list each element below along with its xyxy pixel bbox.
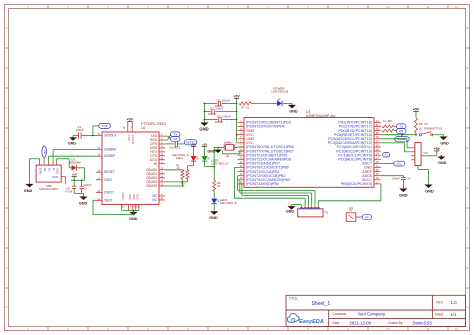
svg-text:TX: TX xyxy=(173,132,177,136)
svg-text:RESET: RESET xyxy=(104,170,115,174)
svg-text:A1: A1 xyxy=(365,215,369,219)
svg-text:H: H xyxy=(466,305,468,309)
svg-text:7: 7 xyxy=(130,206,132,209)
svg-text:TEST: TEST xyxy=(104,198,112,202)
svg-text:E: E xyxy=(466,186,468,190)
svg-text:A: A xyxy=(5,26,7,30)
svg-text:VCC: VCC xyxy=(56,168,60,175)
svg-text:A1: A1 xyxy=(385,153,389,157)
svg-text:Sheet_1: Sheet_1 xyxy=(312,301,331,307)
svg-text:LED1: LED1 xyxy=(176,156,184,160)
svg-text:RESET: RESET xyxy=(397,137,407,141)
svg-text:NC: NC xyxy=(152,198,157,202)
svg-text:EasyEDA: EasyEDA xyxy=(299,319,324,325)
svg-text:CBUS4: CBUS4 xyxy=(146,184,157,188)
svg-text:VCC: VCC xyxy=(127,135,131,141)
svg-text:100nF: 100nF xyxy=(84,183,92,187)
svg-text:100nF: 100nF xyxy=(222,99,230,103)
svg-text:C: C xyxy=(466,106,469,110)
svg-text:GND: GND xyxy=(286,209,294,213)
svg-text:1V1: 1V1 xyxy=(397,162,402,166)
svg-text:GND: GND xyxy=(136,194,139,200)
svg-text:GND: GND xyxy=(133,194,136,200)
svg-text:Company:: Company: xyxy=(333,312,348,316)
svg-text:D+: D+ xyxy=(48,168,52,172)
svg-text:F: F xyxy=(467,226,469,230)
svg-text:U2: U2 xyxy=(141,126,146,130)
svg-text:U3: U3 xyxy=(424,122,428,126)
svg-text:R7: R7 xyxy=(241,106,245,110)
svg-text:GND: GND xyxy=(79,201,88,205)
svg-text:GND: GND xyxy=(68,142,76,146)
svg-text:E: E xyxy=(5,186,7,190)
svg-text:GND: GND xyxy=(52,175,58,179)
svg-text:GND: GND xyxy=(129,194,132,200)
svg-text:D: D xyxy=(466,146,469,150)
svg-text:I2C: I2C xyxy=(424,151,429,155)
svg-text:OSCO: OSCO xyxy=(104,190,114,194)
svg-text:16MHz: 16MHz xyxy=(224,140,234,144)
svg-text:100nF: 100nF xyxy=(215,107,223,111)
svg-text:2PINBUTTON: 2PINBUTTON xyxy=(424,127,442,131)
svg-text:R9: R9 xyxy=(388,119,392,123)
svg-text:100nF: 100nF xyxy=(392,177,400,181)
svg-text:100nF: 100nF xyxy=(222,115,230,119)
svg-text:C8: C8 xyxy=(407,177,411,181)
svg-text:C4: C4 xyxy=(84,186,88,190)
svg-text:100nF: 100nF xyxy=(76,128,84,132)
svg-text:1k: 1k xyxy=(383,119,387,123)
svg-text:ATMEGA328P-AU: ATMEGA328P-AU xyxy=(306,114,336,118)
svg-text:1/1: 1/1 xyxy=(451,312,457,317)
svg-text:Sheet:: Sheet: xyxy=(435,313,444,317)
svg-text:TC3: TC3 xyxy=(102,124,108,128)
svg-text:NC: NC xyxy=(43,150,47,154)
svg-text:+5V: +5V xyxy=(202,142,207,146)
svg-text:GND: GND xyxy=(289,109,298,113)
svg-text:RX: RX xyxy=(173,137,177,141)
svg-text:VCCIO: VCCIO xyxy=(131,135,135,145)
svg-text:1.0: 1.0 xyxy=(451,300,458,305)
svg-text:C9: C9 xyxy=(217,115,221,119)
svg-text:C: C xyxy=(5,106,8,110)
svg-text:RX: RX xyxy=(399,129,403,133)
svg-text:1k: 1k xyxy=(246,106,250,110)
svg-text:20: 20 xyxy=(122,126,125,129)
svg-text:1k: 1k xyxy=(419,127,423,131)
svg-text:GND: GND xyxy=(438,161,446,165)
svg-text:F: F xyxy=(6,226,8,230)
svg-text:AGND: AGND xyxy=(122,192,125,199)
svg-text:R?: R? xyxy=(349,209,353,213)
svg-text:DanteSSS: DanteSSS xyxy=(413,320,433,325)
svg-text:Date:: Date: xyxy=(333,321,341,325)
svg-text:+5V: +5V xyxy=(234,95,241,99)
svg-text:D-: D- xyxy=(52,168,56,171)
svg-text:C2: C2 xyxy=(177,146,181,150)
svg-text:USBDP: USBDP xyxy=(104,154,116,158)
svg-text:REV:: REV: xyxy=(436,300,443,304)
svg-text:105/164-0001: 105/164-0001 xyxy=(39,187,58,191)
svg-text:GND: GND xyxy=(39,168,43,176)
svg-text:B: B xyxy=(5,66,7,70)
svg-text:LED-0603_B: LED-0603_B xyxy=(220,201,237,205)
svg-text:12: 12 xyxy=(455,327,459,331)
svg-text:100nF: 100nF xyxy=(215,120,223,124)
svg-text:G: G xyxy=(466,266,469,270)
svg-text:G: G xyxy=(5,266,8,270)
svg-text:Your Company: Your Company xyxy=(358,311,386,316)
svg-text:3V3OUT: 3V3OUT xyxy=(104,134,117,138)
svg-text:B: B xyxy=(466,66,468,70)
svg-text:H: H xyxy=(5,305,7,309)
svg-text:+5V: +5V xyxy=(72,173,77,177)
svg-text:TX: TX xyxy=(399,124,403,128)
svg-text:25: 25 xyxy=(122,206,125,209)
svg-text:R5: R5 xyxy=(419,122,423,126)
svg-text:LED-0603_B: LED-0603_B xyxy=(272,90,289,94)
svg-text:11: 11 xyxy=(426,5,429,9)
svg-text:4: 4 xyxy=(130,126,133,128)
svg-text:GND: GND xyxy=(440,141,449,145)
svg-text:D: D xyxy=(5,146,8,150)
svg-text:X1: X1 xyxy=(226,154,230,158)
svg-text:4.7uF: 4.7uF xyxy=(65,190,73,194)
svg-text:OSCI: OSCI xyxy=(104,178,112,182)
svg-text:A: A xyxy=(466,26,468,30)
svg-text:GND: GND xyxy=(209,216,218,220)
svg-text:+5V: +5V xyxy=(413,108,420,112)
svg-text:10: 10 xyxy=(386,5,390,9)
svg-text:B5819W: B5819W xyxy=(70,160,81,164)
svg-text:P1: P1 xyxy=(325,211,329,215)
svg-text:GND: GND xyxy=(199,127,208,132)
svg-text:10: 10 xyxy=(386,327,390,331)
svg-text:2021-12-06: 2021-12-06 xyxy=(350,320,372,325)
svg-text:GND: GND xyxy=(129,217,138,221)
svg-text:TITLE:: TITLE: xyxy=(289,296,299,300)
svg-text:Drawn By:: Drawn By: xyxy=(389,321,404,325)
svg-text:PB5(SCK/PCINT5): PB5(SCK/PCINT5) xyxy=(341,182,372,186)
svg-text:RI: RI xyxy=(154,162,157,166)
svg-text:C5: C5 xyxy=(217,99,221,103)
svg-text:USBDM: USBDM xyxy=(104,148,116,152)
svg-text:+5V: +5V xyxy=(434,147,441,151)
svg-text:GND: GND xyxy=(399,193,408,197)
svg-text:C7: C7 xyxy=(210,107,214,111)
svg-text:GND: GND xyxy=(425,189,434,193)
svg-text:100nF: 100nF xyxy=(208,112,216,116)
svg-text:12: 12 xyxy=(455,5,459,9)
svg-text:+5V: +5V xyxy=(127,118,134,122)
svg-text:(PCINT4/MISO)PB4: (PCINT4/MISO)PB4 xyxy=(246,182,279,186)
svg-text:+5V: +5V xyxy=(191,142,196,146)
svg-text:GND: GND xyxy=(208,150,216,154)
svg-text:11: 11 xyxy=(426,327,429,331)
svg-text:ID: ID xyxy=(43,168,47,172)
svg-text:GND: GND xyxy=(24,189,33,193)
